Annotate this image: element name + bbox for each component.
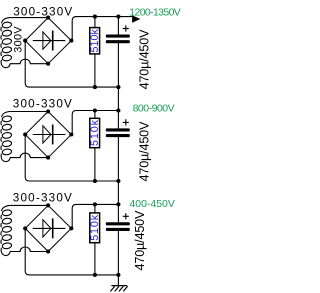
node bridge 3 left vertex (23, 226, 27, 230)
node bridge 2 left vertex (23, 132, 27, 136)
svg-text:400-450V: 400-450V (129, 198, 175, 210)
wire AC top: winding to bridge top vertex (10, 204, 48, 206)
node resistor R3 bottom (93, 273, 97, 277)
svg-text:800-900V: 800-900V (133, 103, 175, 115)
wire AC bottom with hop over DC- riser (10, 153, 48, 157)
svg-text:470µ/450V: 470µ/450V (137, 29, 151, 90)
capacitor C3 470u/450V electrolytic (106, 204, 130, 275)
capacitor C2 470u/450V electrolytic (106, 111, 130, 182)
node capacitor C2 top (116, 108, 120, 112)
plus sign of C1 (123, 25, 129, 31)
node bridge 1 left vertex (23, 39, 27, 43)
wire AC top: winding to bridge top vertex (10, 17, 48, 19)
wire DC+ : right vertex up to output rail (71, 204, 118, 228)
plus sign of C3 (123, 213, 129, 219)
node capacitor C3 top (116, 202, 120, 206)
svg-text:300-330V: 300-330V (13, 98, 72, 111)
wire AC bottom with hop over DC- riser (10, 247, 48, 251)
node bridge 3 right vertex (69, 226, 73, 230)
diode symbol inside bridge B1 (33, 31, 66, 51)
wire AC bottom with hop over DC- riser (10, 59, 48, 63)
svg-text:1200-1350V: 1200-1350V (129, 7, 181, 19)
svg-text:470µ/450V: 470µ/450V (138, 121, 152, 182)
wire series bus stage2 DC- to stage3 DC+ (117, 181, 119, 204)
resistor R3 510k bleeder (90, 204, 100, 275)
node capacitor C2 bottom (116, 179, 120, 183)
output arrow stage 1 (132, 15, 140, 22)
node capacitor C1 top (116, 15, 120, 19)
wire DC+ : right vertex up to output rail (71, 17, 133, 41)
wire DC- : left vertex down to minus rail (25, 228, 118, 275)
node bridge 1 bottom vertex (46, 62, 50, 66)
bridge rectifier B3 diamond (25, 205, 71, 251)
node resistor R2 top (93, 108, 97, 112)
svg-text:300-330V: 300-330V (13, 6, 72, 19)
svg-text:510k: 510k (89, 28, 101, 52)
node resistor R1 top (93, 15, 97, 19)
node bridge 2 top vertex (46, 109, 50, 113)
node capacitor C1 bottom (116, 85, 120, 89)
node bridge 2 bottom vertex (46, 156, 50, 160)
node resistor R1 bottom (93, 85, 97, 89)
wire DC+ : right vertex up to output rail (71, 111, 118, 135)
wire DC- : left vertex down to minus rail (25, 41, 118, 88)
node bridge 2 right vertex (69, 132, 73, 136)
wire DC- : left vertex down to minus rail (25, 135, 118, 182)
ground symbol (110, 286, 127, 292)
svg-text:470µ/450V: 470µ/450V (133, 210, 147, 271)
wire AC top: winding to bridge top vertex (10, 111, 48, 113)
node resistor R3 top (93, 202, 97, 206)
svg-text:300V: 300V (13, 26, 25, 53)
node bridge 3 top vertex (46, 203, 50, 207)
node capacitor C3 bottom (116, 273, 120, 277)
transformer winding T3 (1, 205, 12, 255)
bridge rectifier B1 diamond (25, 18, 71, 64)
svg-text:300-330V: 300-330V (13, 192, 72, 205)
bridge rectifier B2 diamond (25, 112, 71, 158)
node bridge 3 bottom vertex (46, 249, 50, 253)
resistor R2 510k bleeder (90, 111, 100, 182)
transformer winding T1 (1, 18, 12, 68)
wire ground stem (117, 275, 119, 286)
svg-text:510k: 510k (89, 119, 101, 146)
resistor R1 510k bleeder (90, 17, 100, 88)
transformer winding T2 (1, 112, 12, 162)
svg-text:510k: 510k (89, 214, 101, 241)
diode symbol inside bridge B3 (33, 218, 66, 238)
node bridge 1 top vertex (46, 16, 50, 20)
diode symbol inside bridge B2 (33, 125, 66, 145)
plus sign of C2 (123, 119, 129, 125)
node bridge 1 right vertex (69, 39, 73, 43)
node resistor R2 bottom (93, 179, 97, 183)
wire series bus stage1 DC- to stage2 DC+ (117, 87, 119, 110)
capacitor C1 470u/450V electrolytic (106, 17, 130, 88)
